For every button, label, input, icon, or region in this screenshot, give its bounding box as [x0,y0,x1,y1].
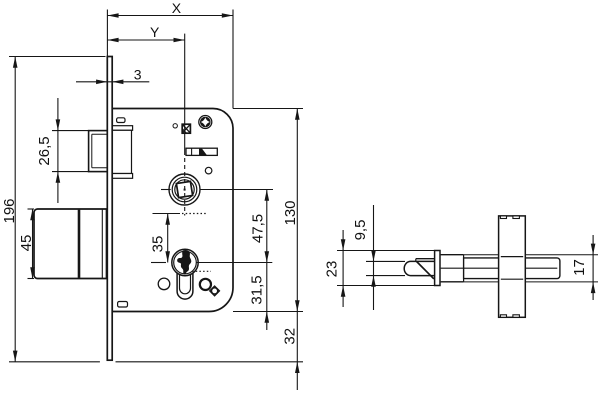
svg-text:130: 130 [282,200,299,225]
dim X [107,15,233,17]
hub centre ticks [161,189,171,191]
phillips screw [199,116,212,129]
svg-text:9,5: 9,5 [352,220,369,241]
circle left of stem [158,278,170,290]
deadbolt [34,209,107,279]
hatched square [182,124,190,133]
svg-text:Y: Y [150,24,160,40]
dim 196 [14,57,16,362]
svg-text:X: X [172,0,182,16]
lock case [112,109,233,312]
extension lines tip [366,260,405,262]
svg-text:196: 196 [1,198,18,223]
circle right of stem [200,279,211,290]
dotted backset line [153,213,181,215]
thick section [441,255,464,282]
svg-text:35: 35 [150,236,167,253]
diamond with circle [210,286,220,296]
svg-text:45: 45 [18,235,35,252]
svg-text:23: 23 [324,261,341,278]
extension lines collar [337,250,434,252]
spindle tip [404,261,435,275]
cylinder centre line [151,262,166,264]
dim 45 [28,208,35,210]
cylinder hole [172,249,198,275]
dim 130 and 32 [296,109,298,391]
slot top [117,118,125,123]
small circle near hatched square [173,124,177,128]
svg-text:17: 17 [571,259,588,276]
spindle hub [169,174,200,205]
shaft mid line [441,267,558,269]
dim Y [107,39,184,41]
node Y centerline vertical [184,34,186,155]
lever slot [186,148,217,155]
latch bolt head [89,131,108,172]
cross piece [499,216,526,317]
dim 9,5 [373,205,375,310]
dotted line right of cylinder [192,270,211,272]
labels [134,0,182,82]
dim 26,5 [52,130,89,132]
svg-text:26,5: 26,5 [36,136,53,165]
faceplate [107,57,112,361]
dim 47,5 and 31,5 [266,190,268,331]
slot bottom [118,302,128,308]
latch body [112,126,132,131]
end tabs [500,216,506,219]
svg-text:32: 32 [282,328,299,345]
dim 17 [592,235,594,300]
svg-text:3: 3 [134,66,142,82]
svg-text:47,5: 47,5 [250,214,267,243]
dim 23 [342,230,344,307]
svg-text:31,5: 31,5 [249,275,266,304]
dim 35 [167,214,169,263]
small circle below screw [205,167,212,174]
collar [435,251,440,286]
thin extension lines to 17 dim [464,254,598,256]
key silhouette [177,250,191,274]
dim 3 [76,81,149,83]
shaft [464,258,560,279]
